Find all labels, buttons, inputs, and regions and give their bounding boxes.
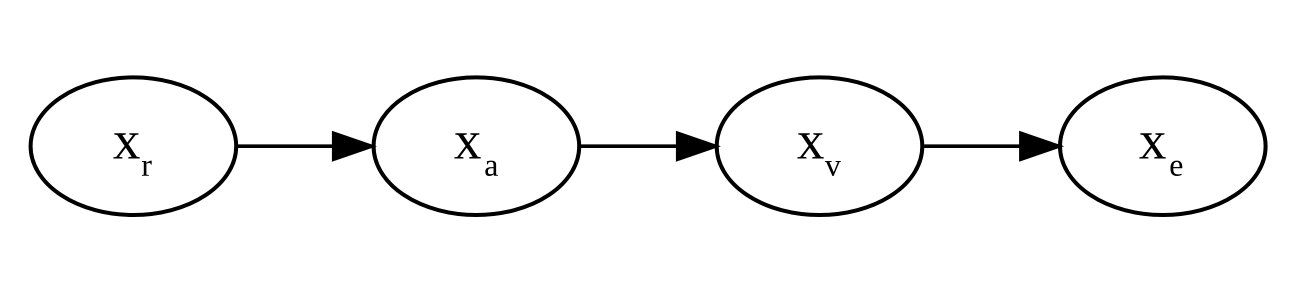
node x_a subscript "a" [485,161,498,176]
node x_r label "x" [113,133,139,158]
arrow 1 head [332,131,377,162]
node x_v subscript "v" [825,161,841,176]
node x_e ellipse [1060,77,1266,215]
wire arrow 1 shaft [238,144,334,148]
node x_a ellipse [374,77,580,215]
node x_v ellipse [717,77,923,215]
arrow 3 head [1019,131,1064,162]
wire arrow 2 shaft [581,144,677,148]
wire arrow 3 shaft [924,144,1020,148]
node x_a label "x" [454,133,480,158]
node x_r ellipse [31,77,237,215]
node x_v label "x" [797,133,823,158]
node x_e subscript "e" [1170,161,1182,176]
node x_r subscript "r" [142,161,152,176]
node x_e label "x" [1139,133,1165,158]
arrow 2 head [676,131,721,162]
